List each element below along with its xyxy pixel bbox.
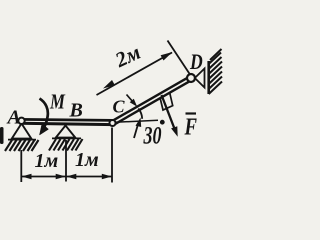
pin A: [18, 118, 24, 124]
svg-text:1м: 1м: [75, 149, 99, 171]
dim arrowhead right at C: [102, 174, 112, 179]
moment M arrowhead: [40, 124, 49, 135]
extension line from D: [168, 41, 191, 75]
svg-text:B: B: [69, 100, 83, 122]
bar C-D (bottom edge): [114, 80, 193, 125]
2m dimension line with left extension: [97, 53, 173, 96]
pin D: [187, 74, 195, 82]
right-angle marker: [160, 93, 173, 110]
beam A-C (top edge): [20, 119, 114, 120]
label 2m (rotated): [111, 40, 145, 73]
degree dot: [160, 120, 165, 125]
svg-text:F: F: [184, 113, 197, 140]
2m dim arrowhead lower-left: [103, 80, 115, 89]
2m dim arrowhead upper-right: [161, 52, 173, 61]
support A ground hatching: [5, 140, 39, 151]
force F arrowhead: [171, 126, 178, 137]
support B base line: [52, 137, 81, 139]
svg-text:30: 30: [143, 122, 162, 150]
scan edge artifact: [0, 127, 4, 144]
bar C-D (top edge): [112, 76, 191, 121]
dim arrowhead left from B: [66, 174, 76, 179]
support D triangle: [195, 69, 205, 88]
support A triangle: [12, 124, 32, 139]
angle arc segment below bar: [138, 109, 142, 119]
support B triangle: [56, 126, 76, 138]
pin C: [110, 120, 116, 126]
support A base line: [8, 139, 36, 141]
svg-text:A: A: [6, 107, 21, 129]
support B ground hatching: [49, 139, 83, 151]
dim arrowhead left at A: [22, 174, 32, 179]
dimension extension line at C: [111, 128, 113, 183]
svg-text:1м: 1м: [35, 150, 59, 172]
dimension extension line at A: [20, 150, 22, 182]
moment M arc: [40, 99, 48, 128]
svg-text:D: D: [189, 50, 203, 74]
wall line at D: [207, 61, 210, 94]
svg-text:M: M: [49, 91, 66, 114]
svg-text:C: C: [113, 97, 126, 117]
dimension line 1m/1m: [21, 176, 112, 178]
beam A-C (bottom edge): [20, 123, 114, 124]
dim arrowhead right toward B: [56, 174, 66, 179]
wall hatching: [209, 49, 222, 94]
dimension extension line at B: [65, 140, 67, 182]
angle arrow up: [134, 126, 138, 138]
force F shaft: [162, 95, 175, 130]
horizontal reference line at C: [115, 120, 158, 122]
leader arrow at C: [127, 95, 134, 103]
